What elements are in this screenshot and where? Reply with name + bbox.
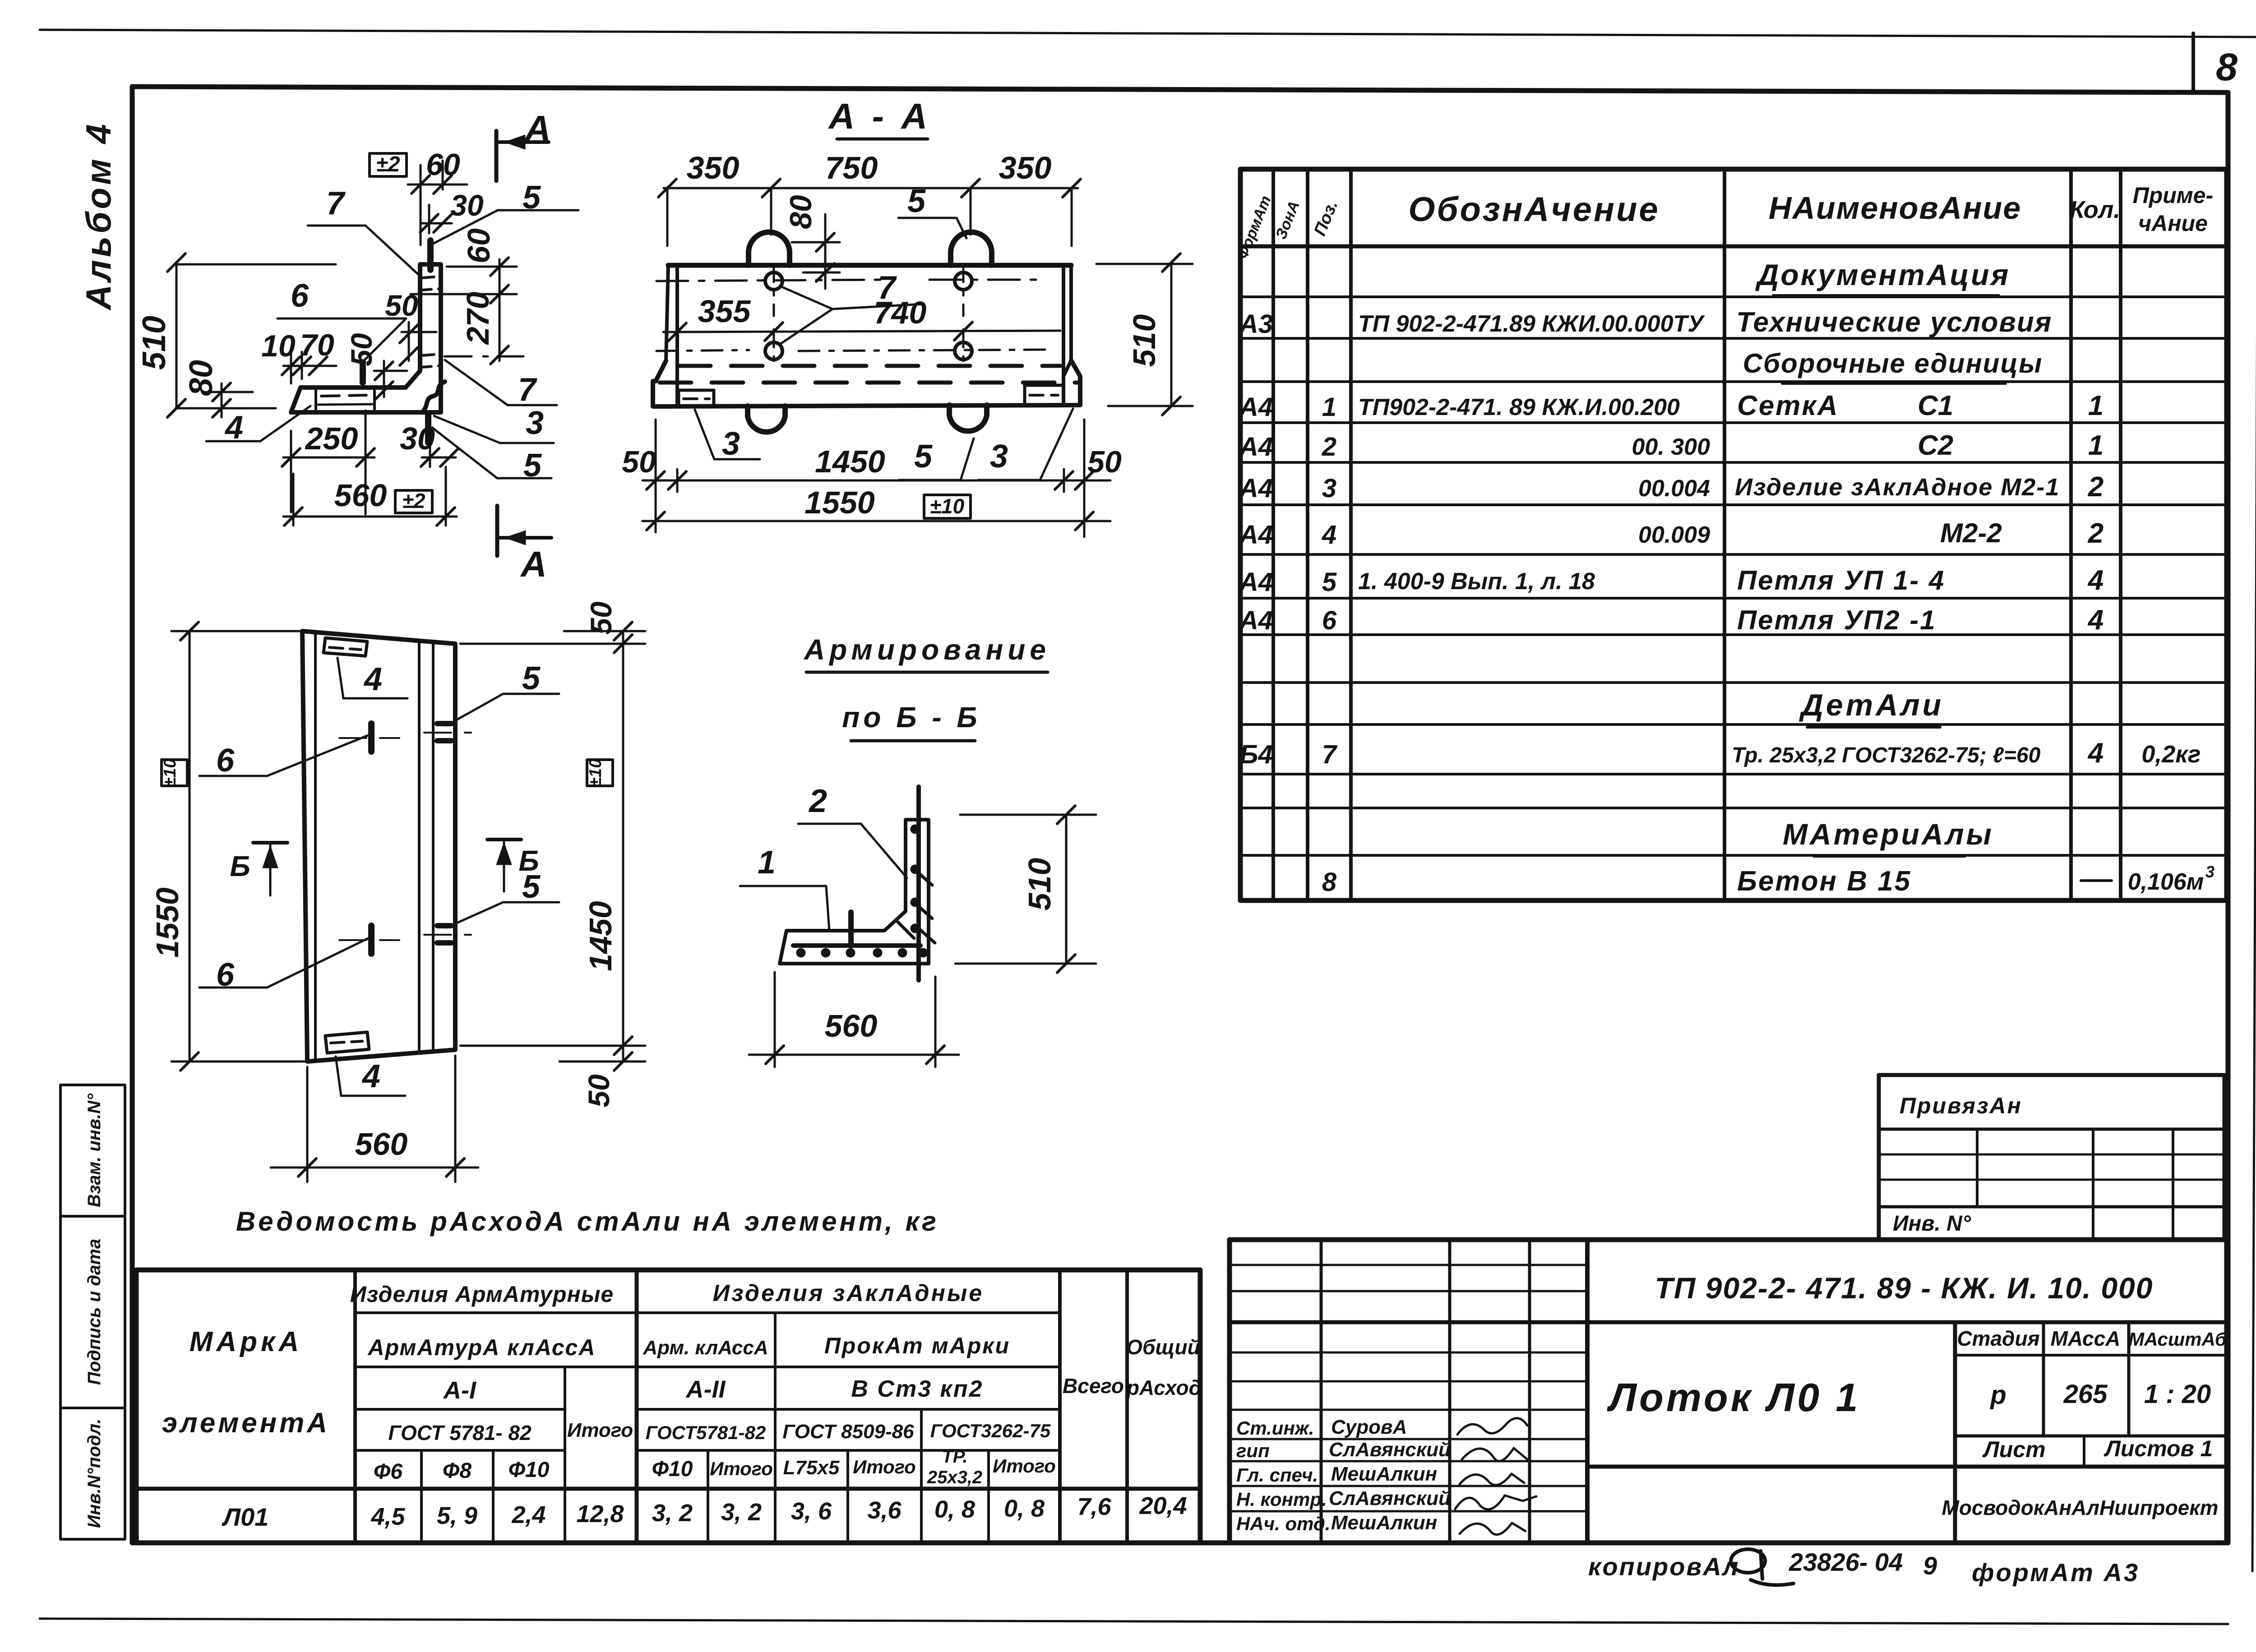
svg-text:Изделие зАклАдное М2-1: Изделие зАклАдное М2-1 <box>1735 474 2060 501</box>
svg-text:9: 9 <box>1923 1551 1937 1580</box>
svg-text:Ф10: Ф10 <box>509 1458 550 1482</box>
svg-text:Итого: Итого <box>567 1419 633 1441</box>
view1 dim 50 rotated (lower) <box>374 370 407 372</box>
svg-text:7: 7 <box>326 185 346 221</box>
view1 dim 30 <box>422 222 452 225</box>
svg-text:ТП 902-2- 471. 89 - КЖ. И.: ТП 902-2- 471. 89 - КЖ. И. 10. 000 <box>1655 1271 2154 1305</box>
svg-text:270: 270 <box>460 292 495 346</box>
svg-text:по Б - Б: по Б - Б <box>842 701 980 734</box>
svg-text:р: р <box>1989 1380 2006 1410</box>
svg-text:А - А: А - А <box>828 96 931 136</box>
title block thin rows left part <box>1230 1264 1587 1266</box>
svg-text:6: 6 <box>291 278 309 314</box>
view1 dim 10 70 <box>283 365 336 367</box>
svg-text:А4: А4 <box>1239 568 1273 597</box>
svg-text:ГОСТ 8509-86: ГОСТ 8509-86 <box>782 1421 914 1443</box>
svg-text:±2: ±2 <box>402 489 425 512</box>
view3 section mark Б right <box>487 838 521 841</box>
svg-text:80: 80 <box>784 195 818 229</box>
svg-text:1450: 1450 <box>583 901 618 971</box>
svg-text:2: 2 <box>1322 432 1336 461</box>
sheet outer thin top line <box>40 30 2256 37</box>
svg-text:МАтериАлы: МАтериАлы <box>1783 817 1994 851</box>
svg-text:0, 8: 0, 8 <box>934 1496 975 1523</box>
svg-text:50: 50 <box>584 601 618 635</box>
svg-text:3: 3 <box>2205 863 2214 881</box>
svg-text:2,4: 2,4 <box>511 1501 546 1528</box>
view1 dim 30 bottom <box>422 457 456 459</box>
viewA-A right foot inner edge <box>1062 385 1065 403</box>
svg-text:1550: 1550 <box>804 485 875 520</box>
title block right horizontals <box>1955 1354 2227 1357</box>
view1 dim 50 small (upper) <box>402 331 436 333</box>
svg-text:20,4: 20,4 <box>1139 1492 1187 1519</box>
viewA-A embedded plate right (poz.3) <box>1023 385 1026 403</box>
view1 dim 80 (left) <box>221 383 223 417</box>
svg-text:7: 7 <box>518 372 537 408</box>
view3 dim 50 top right <box>614 622 632 640</box>
view3 corner plate top (poz.4) <box>324 638 367 656</box>
svg-text:Ф8: Ф8 <box>443 1459 472 1483</box>
svg-text:ТП 902-2-471.89 КЖИ.00.000ТУ: ТП 902-2-471.89 КЖИ.00.000ТУ <box>1358 311 1705 337</box>
svg-text:М2-2: М2-2 <box>1940 518 2002 548</box>
svg-text:чАние: чАние <box>2138 211 2208 236</box>
svg-text:А-I: А-I <box>443 1377 476 1404</box>
view1 embedded plate at slab left (M2-2, poz.4) <box>314 388 317 412</box>
view1 bottom loop bar (poz.5) <box>425 413 431 443</box>
svg-text:6: 6 <box>216 743 235 779</box>
viewA-A tolerance box ±10 <box>924 495 971 518</box>
svg-text:Подпись и дата: Подпись и дата <box>84 1239 104 1385</box>
svg-text:4: 4 <box>1322 520 1336 549</box>
svg-text:МАсштАб: МАсштАб <box>2128 1329 2227 1350</box>
view1 corner wavy detail <box>422 382 445 412</box>
svg-text:Лоток Л0 1: Лоток Л0 1 <box>1607 1375 1861 1420</box>
svg-text:23826- 04: 23826- 04 <box>1789 1548 1903 1576</box>
svg-text:Ст.инж.: Ст.инж. <box>1236 1417 1314 1439</box>
svg-text:Технические условия: Технические условия <box>1736 307 2052 338</box>
svg-text:Б4: Б4 <box>1239 740 1272 769</box>
svg-text:Итого: Итого <box>993 1455 1056 1477</box>
svg-text:ОбознАчение: ОбознАчение <box>1408 190 1660 229</box>
svg-text:8: 8 <box>2216 46 2238 89</box>
svg-text:00.004: 00.004 <box>1638 475 1710 502</box>
viewA-A dim 1550 <box>643 520 1110 522</box>
svg-text:Ф10: Ф10 <box>652 1457 693 1481</box>
view3 tolerance ±10 left <box>162 760 187 786</box>
svg-text:1 : 20: 1 : 20 <box>2144 1380 2211 1409</box>
svg-text:формАт А3: формАт А3 <box>1972 1558 2140 1587</box>
svg-text:60: 60 <box>461 228 496 263</box>
svg-text:В Ст3 кп2: В Ст3 кп2 <box>851 1376 983 1402</box>
signatures squiggles <box>1457 1418 1527 1435</box>
viewA-A element outline <box>668 263 1071 268</box>
view4 mesh C1 horizontal bar (poz.1) <box>793 943 920 948</box>
view1 section mark A top <box>495 131 499 181</box>
svg-text:Бетон В 15: Бетон В 15 <box>1737 866 1911 897</box>
view1 tolerance box ±2 bottom <box>395 490 432 513</box>
svg-text:Петля УП 1- 4: Петля УП 1- 4 <box>1737 565 1945 595</box>
viewA-A dim row 355 / 740 <box>663 331 1060 332</box>
svg-text:7: 7 <box>1322 740 1338 769</box>
svg-text:Тр. 25х3,2 ГОСТ3262-75; ℓ=60: Тр. 25х3,2 ГОСТ3262-75; ℓ=60 <box>1732 743 2041 767</box>
svg-text:2: 2 <box>2088 518 2103 549</box>
svg-text:Изделия зАклАдные: Изделия зАклАдные <box>713 1280 984 1306</box>
view3 slab left inner line <box>314 632 317 1060</box>
svg-text:Инв.N°подл.: Инв.N°подл. <box>84 1419 104 1528</box>
svg-text:Кол.: Кол. <box>2070 196 2121 223</box>
svg-text:560: 560 <box>355 1126 408 1162</box>
svg-text:НАименовАние: НАименовАние <box>1769 190 2021 226</box>
svg-text:Приме-: Приме- <box>2133 183 2214 208</box>
viewA-A dim 50 1450 50 <box>643 480 1110 482</box>
svg-text:МешАлкин: МешАлкин <box>1331 1463 1437 1485</box>
svg-text:0, 8: 0, 8 <box>1004 1495 1045 1522</box>
view4 slab loop tick <box>848 912 854 946</box>
svg-text:ДокументАция: ДокументАция <box>1755 258 2011 291</box>
svg-text:80: 80 <box>183 360 219 396</box>
svg-text:АрмАтурА клАссА: АрмАтурА клАссА <box>367 1335 596 1360</box>
привязан box <box>1879 1075 2224 1240</box>
svg-text:Армирование: Армирование <box>803 633 1050 666</box>
view1 dim 560 <box>283 516 457 518</box>
viewA-A left foot inner edge <box>675 381 679 406</box>
svg-text:СлАвянский: СлАвянский <box>1329 1487 1451 1509</box>
svg-text:350: 350 <box>999 150 1052 185</box>
viewA-A centerlines through holes <box>656 280 884 281</box>
svg-text:50: 50 <box>582 1074 615 1107</box>
view3 slab loop tick top (poz.6) <box>368 724 374 752</box>
svg-text:25х3,2: 25х3,2 <box>927 1467 982 1487</box>
svg-text:Арм. клАссА: Арм. клАссА <box>643 1337 768 1359</box>
svg-text:МешАлкин: МешАлкин <box>1331 1512 1437 1534</box>
svg-text:5: 5 <box>1322 568 1337 597</box>
view4 dim 510 <box>1065 815 1068 964</box>
svg-text:1: 1 <box>2088 390 2103 421</box>
svg-text:265: 265 <box>2063 1380 2108 1409</box>
view3 dim 560 bottom <box>271 1167 478 1169</box>
view1 dim 250 <box>283 457 374 459</box>
viewA-A holes for pipes (poz.7) <box>765 272 782 290</box>
svg-text:1: 1 <box>1322 392 1336 422</box>
svg-text:12,8: 12,8 <box>576 1500 624 1527</box>
svg-text:Общий: Общий <box>1126 1335 1200 1359</box>
page number box <box>2191 33 2195 90</box>
svg-text:Итого: Итого <box>710 1458 773 1479</box>
viewA-A top dim 350 750 350 <box>664 187 1078 189</box>
svg-text:Инв. N°: Инв. N° <box>1893 1212 1971 1236</box>
view1 embedded plate dashes at wall top (M2-1) <box>421 277 439 278</box>
title block right part verticals <box>1953 1322 1957 1543</box>
svg-text:ДетАли: ДетАли <box>1799 688 1944 722</box>
svg-text:±2: ±2 <box>376 152 400 176</box>
svg-text:НАч. отд.: НАч. отд. <box>1236 1513 1331 1534</box>
svg-text:50: 50 <box>345 333 378 366</box>
sheet outer thin bottom line <box>40 1619 2228 1624</box>
svg-text:ТР.: ТР. <box>942 1447 967 1467</box>
view4 wall rebar dots <box>911 825 920 834</box>
svg-text:Стадия: Стадия <box>1957 1327 2039 1350</box>
svg-text:Всего: Всего <box>1063 1374 1124 1398</box>
svg-text:3: 3 <box>1322 474 1336 503</box>
svg-text:ПрокАт мАрки: ПрокАт мАрки <box>824 1333 1010 1358</box>
svg-text:4: 4 <box>2087 605 2103 636</box>
svg-text:510: 510 <box>1022 858 1057 911</box>
title block verticals left part <box>1320 1240 1323 1543</box>
spec table grid <box>1240 169 2227 900</box>
view3 dim 1450 right <box>622 631 624 1061</box>
svg-text:5, 9: 5, 9 <box>437 1502 477 1529</box>
svg-text:8: 8 <box>1322 868 1337 897</box>
view3 section mark Б left <box>253 841 287 844</box>
svg-text:МАркА: МАркА <box>190 1326 303 1357</box>
view4 slab rebar dots <box>796 948 805 957</box>
svg-text:гип: гип <box>1236 1440 1270 1461</box>
svg-text:1450: 1450 <box>815 444 885 479</box>
svg-text:±10: ±10 <box>586 758 605 787</box>
svg-text:50: 50 <box>622 445 656 479</box>
view1 section mark A bottom <box>495 506 499 556</box>
viewA-A embedded plate left (poz.3) <box>679 390 714 406</box>
svg-text:Взам. инв.N°: Взам. инв.N° <box>84 1093 104 1207</box>
svg-text:560: 560 <box>334 478 387 513</box>
svg-text:А4: А4 <box>1239 606 1273 635</box>
svg-text:1: 1 <box>2088 430 2103 461</box>
svg-text:7: 7 <box>878 270 897 306</box>
viewA-A dim 80 loop height <box>824 214 827 289</box>
svg-text:рАсход: рАсход <box>1126 1376 1202 1399</box>
svg-text:3: 3 <box>990 438 1008 475</box>
svg-text:Ведомость рАсходА стАли нА: Ведомость рАсходА стАли нА элемент, кг <box>236 1206 939 1237</box>
svg-text:50: 50 <box>1087 445 1122 479</box>
title block designation divider <box>1230 1320 2227 1324</box>
svg-text:Б: Б <box>518 844 539 877</box>
svg-text:А4: А4 <box>1239 520 1273 549</box>
svg-text:5: 5 <box>907 183 926 219</box>
svg-text:4: 4 <box>363 661 382 697</box>
viewA-A dim 510 right <box>1170 263 1173 406</box>
svg-text:10: 10 <box>261 329 296 363</box>
svg-text:Листов 1: Листов 1 <box>2104 1436 2213 1461</box>
svg-text:ПривязАн: ПривязАн <box>1900 1093 2022 1118</box>
svg-text:элементА: элементА <box>162 1407 330 1439</box>
svg-text:Петля УП2 -1: Петля УП2 -1 <box>1737 605 1937 635</box>
title block outline <box>1230 1240 2227 1543</box>
svg-text:L75х5: L75х5 <box>783 1457 840 1479</box>
svg-text:6: 6 <box>1322 606 1337 635</box>
svg-text:3, 2: 3, 2 <box>652 1500 693 1527</box>
svg-text:4,5: 4,5 <box>370 1503 405 1530</box>
svg-text:355: 355 <box>698 294 751 329</box>
svg-text:70: 70 <box>300 328 334 362</box>
svg-text:А4: А4 <box>1239 392 1273 422</box>
svg-text:0,106м: 0,106м <box>2128 869 2204 895</box>
view4 corner hook strokes <box>916 871 932 885</box>
view3 dim 1550 left <box>189 631 191 1061</box>
svg-text:А4: А4 <box>1239 474 1273 503</box>
svg-text:МАссА: МАссА <box>2051 1327 2121 1350</box>
svg-text:3, 6: 3, 6 <box>791 1498 832 1525</box>
steel table grid <box>136 1270 1200 1543</box>
svg-text:копировАл: копировАл <box>1588 1552 1740 1581</box>
view1 dim 510 (left) <box>176 263 178 408</box>
view1 embedded plate dashes at wall bottom (M2-1) <box>421 354 439 355</box>
svg-text:Альбом 4: Альбом 4 <box>79 121 118 311</box>
viewA-A top lifting loops (poz.5) <box>749 232 790 266</box>
view3 plan outline <box>302 631 455 1061</box>
svg-text:СлАвянский: СлАвянский <box>1329 1439 1451 1461</box>
svg-text:С1: С1 <box>1918 390 1953 421</box>
view1 slab loop bar (poz.6) <box>360 362 366 383</box>
svg-text:00.009: 00.009 <box>1638 522 1710 548</box>
view3 wall loop marks bottom (poz.5) <box>437 923 451 928</box>
view4 mesh C2 vertical bar (poz.2) <box>916 787 921 980</box>
svg-text:СеткА: СеткА <box>1737 390 1839 421</box>
svg-text:А: А <box>520 544 547 584</box>
sidebar cells <box>60 1085 125 1539</box>
svg-text:А4: А4 <box>1239 432 1273 461</box>
svg-text:А: А <box>524 108 551 148</box>
svg-text:510: 510 <box>136 316 172 370</box>
view1 tolerance box ±2 <box>370 153 407 176</box>
view3 corner plate bottom (poz.4) <box>325 1032 369 1053</box>
svg-text:30: 30 <box>400 421 435 456</box>
svg-text:5: 5 <box>522 660 541 697</box>
svg-text:Б: Б <box>230 850 250 882</box>
svg-text:СуровА: СуровА <box>1331 1416 1407 1438</box>
view3 dim 50 bottom right <box>614 1052 632 1071</box>
svg-text:ГОСТ3262-75: ГОСТ3262-75 <box>930 1420 1051 1441</box>
svg-text:4: 4 <box>2087 565 2103 596</box>
svg-text:60: 60 <box>426 148 460 182</box>
view4 concrete outline <box>780 820 929 964</box>
svg-text:5: 5 <box>914 438 933 475</box>
view1 right dim column 60 / 270 <box>499 259 501 361</box>
view3 slab loop tick bottom (poz.6) <box>368 926 374 954</box>
svg-text:С2: С2 <box>1918 430 1953 461</box>
svg-text:Изделия АрмАтурные: Изделия АрмАтурные <box>350 1282 614 1307</box>
svg-text:ГОСТ5781-82: ГОСТ5781-82 <box>646 1422 766 1443</box>
view3 wall lines <box>418 641 421 1051</box>
svg-text:±10: ±10 <box>930 494 965 518</box>
svg-text:1550: 1550 <box>150 887 185 958</box>
viewA-A bottom lifting loops (poz.5) <box>748 406 785 432</box>
svg-text:Ф6: Ф6 <box>374 1460 402 1484</box>
view1 wall top loop bar (poz.5) <box>427 240 434 270</box>
view3 tolerance ±10 right <box>587 760 613 786</box>
svg-text:510: 510 <box>1127 314 1162 367</box>
svg-text:±10: ±10 <box>161 758 180 787</box>
view1 dim 60 top <box>408 184 467 186</box>
svg-text:ТП902-2-471. 89 КЖ.И.00.200: ТП902-2-471. 89 КЖ.И.00.200 <box>1358 394 1680 420</box>
viewA-A hidden slab edge dashes <box>679 364 1060 368</box>
svg-text:Лист: Лист <box>1982 1437 2045 1462</box>
svg-text:Гл. спеч.: Гл. спеч. <box>1236 1464 1318 1486</box>
svg-text:МосводокАнАлНиипроект: МосводокАнАлНиипроект <box>1942 1496 2219 1519</box>
view1: L-shaped cross-section outline <box>291 264 441 412</box>
svg-text:А-II: А-II <box>685 1376 726 1403</box>
view3 wall loop marks top (poz.5) <box>437 721 451 726</box>
svg-text:ГОСТ 5781- 82: ГОСТ 5781- 82 <box>388 1421 532 1444</box>
svg-text:2: 2 <box>808 783 827 819</box>
view4 dim 560 <box>749 1054 959 1056</box>
svg-text:7,6: 7,6 <box>1077 1493 1111 1520</box>
svg-text:350: 350 <box>687 150 740 185</box>
svg-text:30: 30 <box>450 189 484 222</box>
svg-text:Итого: Итого <box>853 1456 916 1477</box>
svg-text:4: 4 <box>361 1058 380 1094</box>
svg-text:Сборочные единицы: Сборочные единицы <box>1743 348 2043 378</box>
svg-text:3, 2: 3, 2 <box>721 1499 762 1526</box>
svg-text:1. 400-9 Вып. 1, л. 18: 1. 400-9 Вып. 1, л. 18 <box>1358 568 1595 595</box>
svg-text:00. 300: 00. 300 <box>1632 434 1710 460</box>
svg-text:250: 250 <box>305 421 358 456</box>
svg-text:560: 560 <box>825 1008 878 1043</box>
svg-text:Л01: Л01 <box>222 1503 269 1531</box>
svg-text:1: 1 <box>758 844 776 881</box>
svg-text:0,2кг: 0,2кг <box>2141 741 2201 768</box>
svg-text:А3: А3 <box>1239 309 1273 339</box>
svg-text:4: 4 <box>2087 738 2103 769</box>
svg-text:3,6: 3,6 <box>867 1497 901 1524</box>
sheet outer thin right line <box>2252 37 2256 1571</box>
svg-text:750: 750 <box>825 150 878 185</box>
svg-text:3: 3 <box>722 426 740 462</box>
svg-text:3: 3 <box>526 405 544 441</box>
svg-text:2: 2 <box>2088 471 2103 503</box>
svg-text:Н. контр.: Н. контр. <box>1236 1489 1327 1510</box>
